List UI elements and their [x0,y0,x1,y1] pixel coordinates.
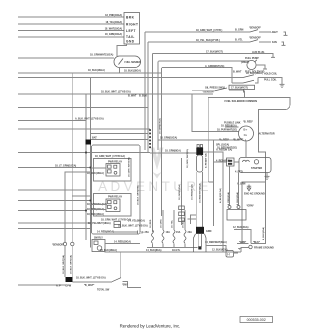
wire bus y120.5 [18,121,86,241]
alternator B+ drop to starter [245,141,247,158]
svg-text:PULL COIL: PULL COIL [264,78,277,81]
svg-text:*BLK*: *BLK* [253,241,260,244]
frame ground cluster [237,241,274,252]
svg-text:*SENSOR*: *SENSOR* [52,243,64,246]
bat junction square [86,140,92,145]
wire bus y129 [18,128,150,130]
wire bus y285 [18,284,66,286]
svg-text:ALTERNATOR: ALTERNATOR [259,133,275,136]
wire seat switch riser [119,252,121,278]
watermark logo chevron [151,148,164,179]
svg-text:ENG-NC GROUND: ENG-NC GROUND [244,193,265,196]
starter junction [216,158,239,166]
junction dots left trunk [85,152,91,212]
wire trunk x86 [85,94,87,240]
fuse F2 [161,210,171,248]
sender circles [63,242,66,245]
svg-text:18_RED(8GA): 18_RED(8GA) [221,124,237,127]
svg-text:*SENSOR*: *SENSOR* [249,37,261,40]
part number box [240,317,273,323]
relay K1 [87,160,123,176]
svg-text:18_LT_GRN(18GA): 18_LT_GRN(18GA) [55,164,76,167]
wires below circles [64,246,66,277]
svg-text:14_RED(18GA): 14_RED(18GA) [114,240,131,243]
oil pressure switch [192,86,245,97]
svg-text:17_BLK(MY27): 17_BLK(MY27) [206,50,223,53]
fuse F1 [145,219,154,247]
svg-text:LIGHT: LIGHT [271,31,279,34]
svg-text:B_YEL: B_YEL [235,39,243,42]
bottom seat switch [73,277,142,292]
svg-text:18_ORG: 18_ORG [161,219,163,228]
svg-text:TOTAL SW: TOTAL SW [97,289,110,292]
svg-text:18_PUR/WHT(2G): 18_PUR/WHT(2G) [217,129,237,132]
svg-text:18_GRN_WHT_(17Y/B GA): 18_GRN_WHT_(17Y/B GA) [101,219,131,222]
wire bus y37 [18,36,124,38]
svg-text:*T*: *T* [238,248,241,251]
svg-text:B_WHT: B_WHT [233,71,242,74]
svg-text:*B_WHT*: *B_WHT* [84,284,94,287]
connector P1 tail lights [124,13,140,45]
fuel sender [114,56,141,68]
svg-text:4_RED: 4_RED [235,171,243,174]
svg-text:FRAME GROUND: FRAME GROUND [254,247,274,250]
wire labels P1 [105,14,122,36]
svg-text:A_RED(W GA): A_RED(W GA) [205,153,208,168]
wire bus y210.5 [18,210,86,212]
svg-text:Rendered by LeadVenture, Inc.: Rendered by LeadVenture, Inc. [120,324,181,329]
svg-text:A_P: A_P [56,284,61,287]
svg-text:14_RED/WHT(8GA): 14_RED/WHT(8GA) [199,183,202,203]
junction dots trunk [149,129,151,148]
svg-text:18_GRN(18GA): 18_GRN(18GA) [160,137,177,140]
pin block 2P [114,222,121,228]
svg-text:17_BLK(MY27): 17_BLK(MY27) [231,87,248,90]
svg-text:GRN: GRN [206,230,212,233]
svg-text:18_BLK_WHT(GA): 18_BLK_WHT(GA) [70,255,73,274]
wire bus y152.5 [18,152,150,154]
svg-text:18_YEL_BLK(17Y/B ): 18_YEL_BLK(17Y/B ) [196,39,220,42]
svg-text:*GRN*: *GRN* [247,205,254,208]
svg-text:12_BLK(4GA): 12_BLK(4GA) [212,248,228,251]
svg-text:18_BLK(18GA): 18_BLK(18GA) [87,213,104,216]
svg-text:*SENSOR*: *SENSOR* [249,27,261,30]
svg-text:000535-002: 000535-002 [247,318,266,322]
svg-text:*A_RED*: *A_RED* [219,139,229,142]
battery box [227,210,246,221]
diode stack [178,158,184,225]
wire bus y223 [18,222,92,224]
svg-text:FUEL PUMP: FUEL PUMP [245,57,259,60]
junction block J2 pins [197,145,199,148]
svg-text:18_BLK(18GA): 18_BLK(18GA) [124,70,141,73]
svg-text:18_RED: 18_RED [150,219,152,228]
svg-text:18_BLK_WHT_(17Y/B GA): 18_BLK_WHT_(17Y/B GA) [118,225,148,228]
wire bus y24 [18,23,124,25]
alternator [158,126,275,142]
left bus wires [18,17,243,285]
wire trunk x148 [147,42,149,153]
svg-text:18_GRN_WHT_(17Y/B ): 18_GRN_WHT_(17Y/B ) [196,29,223,32]
wire bus y58 [18,57,114,59]
svg-text:(..): (..) [227,253,230,256]
wire bus y30.5 [18,30,124,32]
svg-text:18_WHT(18GA): 18_WHT(18GA) [105,27,122,30]
alternator labels [217,121,253,150]
svg-text:GND: GND [126,39,135,43]
wire pair below capsule [196,172,198,227]
svg-text:FAN: FAN [272,41,277,44]
svg-text:RIGHT: RIGHT [126,22,138,26]
wire bus y167.5 [18,167,92,169]
wire x213.5 [213,140,215,226]
key connector black [188,215,228,252]
long bottom wire [105,251,242,253]
svg-text:BRK: BRK [126,15,135,19]
svg-text:A_BLK(W GA): A_BLK(W GA) [219,188,222,203]
svg-text:18_GRN_WHT_(17Y/B GA): 18_GRN_WHT_(17Y/B GA) [95,155,125,158]
enclosure U notch [208,181,213,183]
wire trunk x152.5 [152,54,154,233]
wire bus y94 [18,94,239,132]
engine ground enclosure [235,171,266,244]
svg-text:SPL (18GA): SPL (18GA) [216,144,229,147]
fuse F3 [172,210,181,248]
svg-text:B_BLK: B_BLK [139,95,147,98]
svg-text:18_BLK(18GA): 18_BLK(18GA) [88,69,105,72]
svg-text:4_BLK(4GA): 4_BLK(4GA) [236,192,239,205]
svg-text:18_YEL: 18_YEL [172,219,174,228]
main relay enclosure [92,145,141,234]
svg-text:PWR RELAY: PWR RELAY [108,160,123,163]
starter [239,158,271,180]
wire bus y73 [18,72,162,74]
fuel solenoid hold/pull coils [232,71,285,88]
svg-text:DPW: DPW [66,284,72,287]
svg-text:FUEL SOLENOID: FUEL SOLENOID [245,71,265,74]
svg-text:18_GRN_WHT(2G): 18_GRN_WHT(2G) [187,149,189,168]
svg-text:*B_WHT*: *B_WHT* [233,139,243,142]
svg-text:STARTER: STARTER [251,167,262,170]
svg-text:15A: 15A [176,231,181,234]
wire trunk x158 [158,61,160,150]
wire trunk x161.5 [162,68,164,217]
aux plug row [153,50,276,57]
svg-text:18_BLK(18GA): 18_BLK(18GA) [100,249,117,252]
wire trunk x90.5 [90,78,92,248]
svg-text:4_RED(4GA): 4_RED(4GA) [227,192,230,205]
svg-text:HOLD COIL: HOLD COIL [264,72,278,75]
svg-text:LEFT: LEFT [126,29,136,33]
svg-text:4_BLK(4GA): 4_BLK(4GA) [262,227,265,240]
fuel pump row [160,57,267,83]
wire bus y200.5 [18,200,92,202]
wire bus y190 [18,189,86,191]
svg-text:2P: 2P [141,231,144,234]
svg-text:18_BLK_WHT(Y/B): 18_BLK_WHT(Y/B) [138,185,140,205]
svg-text:A_GRN/WHT(2G): A_GRN/WHT(2G) [205,65,224,68]
svg-text:18_PNK(18GA): 18_PNK(18GA) [105,14,122,17]
svg-text:*GRN*: *GRN* [239,241,246,244]
svg-text:B+: B+ [243,127,247,131]
svg-text:4_RED(4GA): 4_RED(4GA) [216,160,230,163]
svg-text:*SW*: *SW* [122,284,128,287]
relay sub-enclosure 2 [94,194,132,217]
svg-text:18_BLK_WHT_(17Y/B GA): 18_BLK_WHT_(17Y/B GA) [76,277,106,280]
wire trunk x145 [144,32,146,150]
svg-text:PWR RELAY: PWR RELAY [108,195,123,198]
svg-text:IG: IG [244,133,248,137]
wire sender drop [119,68,121,74]
svg-text:18-GTL: 18-GTL [172,249,181,252]
svg-text:18_BLK_WHT_(17Y/B GA): 18_BLK_WHT_(17Y/B GA) [101,91,131,94]
bat wires right [91,133,148,135]
svg-text:FUEL SENDER: FUEL SENDER [125,62,142,64]
svg-text:BAT: BAT [92,137,97,140]
svg-text:*B_RED*: *B_RED* [243,121,253,124]
wire bus y79 [18,77,243,79]
svg-text:18_BLK_WHT(GA): 18_BLK_WHT(GA) [62,255,65,274]
fuse bus [147,247,198,249]
svg-text:A_BLK_WHT_(17Y/B GA): A_BLK_WHT_(17Y/B GA) [75,117,104,120]
switch FAN row [148,37,286,46]
relay K2 [87,195,123,216]
fuse bank [145,210,198,248]
wire bus y107.5 [18,107,148,109]
engine enclosure line [208,98,290,244]
svg-text:18_GRN(18GA): 18_GRN(18GA) [178,184,181,200]
fuel solenoid common box [225,100,258,103]
svg-text:AUX PLUG: AUX PLUG [252,51,264,54]
svg-text:FUEL SOLENOID COMMON: FUEL SOLENOID COMMON [225,100,258,103]
svg-text:B_WHT: B_WHT [128,95,137,98]
svg-text:25A: 25A [145,231,150,234]
wire gnd loop [117,44,127,56]
capsule slot below J2 [197,155,203,172]
label 17_BLK boxed [229,85,255,89]
svg-text:18_GRN/WHT(18GA): 18_GRN/WHT(18GA) [90,54,113,57]
wire J2 right leg [203,152,223,252]
svg-text:18_GRN_WHT(Y/B): 18_GRN_WHT(Y/B) [129,157,131,177]
battery feed wires [230,166,239,206]
fuse F4 [183,210,193,248]
svg-text:12_BLK(4GA): 12_BLK(4GA) [233,226,249,229]
wire bus y17 [18,16,124,18]
svg-text:14_RED(W GA): 14_RED(W GA) [190,184,193,200]
ground sym solenoid [280,84,285,87]
junction block J2 [196,148,203,156]
svg-text:14_RED/WHT(8GA): 14_RED/WHT(8GA) [205,241,227,244]
svg-text:18_GRN(18GA): 18_GRN(18GA) [159,118,162,134]
switch LIGHT row [145,27,288,36]
svg-text:18_GRN(8GA): 18_GRN(8GA) [165,150,181,153]
wire 18_BLK_WHT to 2P [105,231,138,233]
oil relay K3 [92,237,140,252]
svg-text:14_BLK(8GA): 14_BLK(8GA) [146,249,162,252]
svg-text:20A: 20A [188,231,193,234]
svg-text:18_YEL(18GA): 18_YEL(18GA) [106,21,123,24]
svg-text:B_GRN: B_GRN [235,29,244,32]
svg-text:18_YEL/WHT(18GA): 18_YEL/WHT(18GA) [88,222,111,225]
relay sub-enclosure 1 [94,159,132,182]
trunk verticals [72,32,163,248]
battery terminal circles [228,206,231,209]
junction square bottom left [66,277,73,282]
wire bus y228.5 [18,228,92,230]
svg-text:14_YEL(W GA): 14_YEL(W GA) [128,220,145,223]
wire trunk x72 [71,73,73,196]
svg-text:10A: 10A [166,231,171,234]
svg-text:A_RED(W GA): A_RED(W GA) [216,149,232,152]
connector 2pin bottom [226,251,238,258]
svg-text:18_GRN(18GA): 18_GRN(18GA) [105,33,122,36]
